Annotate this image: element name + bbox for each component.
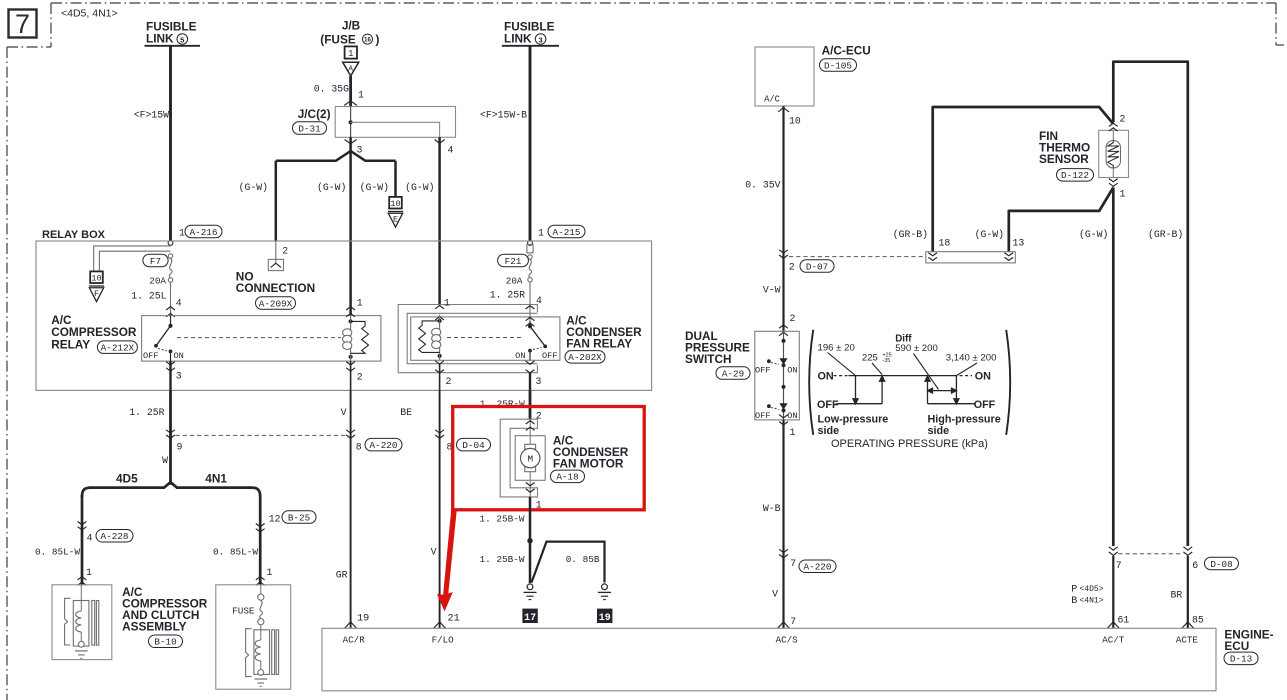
svg-text:2: 2 bbox=[357, 372, 363, 383]
wire GR-B loop over top bbox=[1113, 62, 1188, 546]
junction dot bbox=[527, 538, 532, 543]
dual pressure switch box A-29 bbox=[755, 331, 800, 420]
svg-text:(G-W): (G-W) bbox=[360, 182, 389, 193]
wire to ECU AC/T bbox=[1112, 556, 1114, 628]
svg-text:): ) bbox=[376, 32, 380, 46]
svg-text:side: side bbox=[818, 425, 840, 437]
fin thermo sensor box D-122 bbox=[1099, 130, 1129, 177]
svg-text:FAN MOTOR: FAN MOTOR bbox=[553, 457, 624, 471]
chart left parenthesis bbox=[809, 330, 813, 435]
wire G-W to A/C-ECU 13 bbox=[1009, 188, 1114, 252]
svg-text:19: 19 bbox=[357, 613, 369, 624]
svg-text:ECU: ECU bbox=[1224, 639, 1249, 653]
relay box outline bbox=[36, 241, 652, 390]
connector chevrons D-07 bbox=[779, 250, 788, 253]
ECU pin chevron AC/T bbox=[1107, 622, 1119, 629]
svg-text:0. 35V: 0. 35V bbox=[745, 179, 780, 190]
svg-text:9: 9 bbox=[177, 441, 183, 452]
ECU pin chevron AC/R bbox=[345, 622, 357, 629]
no connection stub bbox=[275, 241, 277, 263]
connector chevrons pin 8 D-04 bbox=[435, 430, 444, 433]
wire 4D5/4N1 split bracket bbox=[82, 482, 260, 497]
wire 4D5 branch bbox=[81, 495, 84, 585]
compressor clutch internals (4N1) bbox=[246, 629, 252, 677]
svg-text:4N1: 4N1 bbox=[205, 472, 227, 486]
A/C compressor relay box A-212X outline bbox=[142, 316, 381, 362]
svg-text:A-209X: A-209X bbox=[259, 298, 293, 309]
svg-text:A-212X: A-212X bbox=[101, 343, 135, 354]
svg-text:10: 10 bbox=[789, 116, 801, 127]
svg-text:OFF: OFF bbox=[974, 399, 996, 411]
A/C compressor and clutch assembly box bbox=[52, 585, 112, 660]
svg-text:D-07: D-07 bbox=[806, 261, 828, 272]
svg-text:0. 35G: 0. 35G bbox=[314, 83, 349, 94]
svg-text:3: 3 bbox=[538, 35, 542, 44]
chart ON right bbox=[960, 375, 973, 377]
svg-text:4: 4 bbox=[176, 298, 182, 309]
svg-text:SENSOR: SENSOR bbox=[1039, 152, 1089, 166]
pin 2 chevrons motor bbox=[526, 421, 535, 424]
relay coil (compressor) bbox=[349, 319, 353, 323]
chart callout 3140 bbox=[956, 363, 977, 376]
ECU pin chevron AC/S bbox=[778, 622, 790, 629]
fuse F7 bbox=[168, 254, 172, 258]
svg-text:<4N1>: <4N1> bbox=[1080, 597, 1104, 606]
ECU pin chevron ACTE bbox=[1182, 622, 1194, 629]
svg-text:1: 1 bbox=[348, 49, 353, 59]
svg-text:7: 7 bbox=[790, 558, 796, 569]
pin 1 chevrons sensor bbox=[1109, 179, 1118, 182]
svg-text:2: 2 bbox=[790, 313, 796, 324]
compressor clutch internals (4D5) bbox=[65, 598, 71, 645]
A/C-ECU connector capsule D-07 side bbox=[926, 252, 1016, 263]
svg-text:OFF: OFF bbox=[817, 399, 839, 411]
chart main line bbox=[848, 375, 957, 377]
svg-text:D-08: D-08 bbox=[1210, 559, 1232, 570]
svg-text:(G-W): (G-W) bbox=[405, 182, 434, 193]
pin 1 chevrons motor bbox=[526, 483, 535, 486]
wire G-W pin4 branch to fan relay coil bbox=[438, 137, 441, 304]
svg-text:1: 1 bbox=[1120, 189, 1126, 200]
svg-text:10: 10 bbox=[91, 274, 101, 284]
svg-text:7: 7 bbox=[15, 9, 30, 39]
svg-text:(GR-B): (GR-B) bbox=[893, 229, 928, 240]
svg-text:LINK: LINK bbox=[504, 31, 532, 45]
svg-text:ON: ON bbox=[787, 365, 797, 375]
J/B connector 1 box bbox=[345, 46, 357, 58]
svg-text:V: V bbox=[431, 546, 437, 557]
svg-text:3: 3 bbox=[536, 376, 542, 387]
A/C condenser fan relay mid box bbox=[407, 313, 537, 363]
svg-text:0. 85L-W: 0. 85L-W bbox=[213, 546, 258, 557]
svg-text:ON: ON bbox=[787, 411, 797, 421]
connector chevrons D-08 left bbox=[1109, 547, 1118, 550]
svg-text:20A: 20A bbox=[506, 275, 523, 286]
svg-text:1: 1 bbox=[86, 567, 92, 578]
wire 0.85B branch bbox=[532, 542, 605, 583]
fuse F21 label bbox=[498, 254, 529, 267]
svg-text:CONNECTION: CONNECTION bbox=[236, 281, 315, 295]
pin 3 chevrons switch bbox=[166, 362, 175, 365]
fan motor M circle bbox=[521, 448, 540, 467]
connector chevrons D-08 right bbox=[1183, 547, 1192, 550]
svg-text:BR: BR bbox=[1171, 589, 1183, 600]
svg-text:F7: F7 bbox=[150, 256, 161, 267]
pin 3 chevrons fan switch bbox=[526, 361, 535, 364]
svg-text:4: 4 bbox=[448, 145, 454, 156]
svg-text:590 ± 200: 590 ± 200 bbox=[895, 343, 938, 354]
wire V-GR to ECU AC/R bbox=[350, 390, 352, 628]
svg-text:V-W: V-W bbox=[763, 284, 781, 295]
svg-text:F: F bbox=[94, 289, 99, 299]
chart callout diff bbox=[914, 354, 939, 390]
svg-text:18: 18 bbox=[939, 237, 951, 248]
connector A-220 dashed link bbox=[176, 434, 347, 436]
svg-text:A-202X: A-202X bbox=[568, 352, 602, 363]
svg-text:ACTE: ACTE bbox=[1176, 634, 1199, 645]
svg-text:V: V bbox=[772, 589, 778, 600]
chart callout 225 bbox=[872, 363, 882, 375]
svg-text:(G-W): (G-W) bbox=[239, 182, 268, 193]
svg-text:1. 25B-W: 1. 25B-W bbox=[479, 554, 524, 565]
svg-text:225: 225 bbox=[862, 352, 878, 363]
svg-text:19: 19 bbox=[599, 613, 611, 624]
highlight red arrow bbox=[437, 510, 457, 612]
wire fusible link 5 to relay box bbox=[169, 46, 172, 241]
svg-text:1: 1 bbox=[267, 567, 273, 578]
svg-text:A/C: A/C bbox=[764, 95, 780, 105]
wire BE-V to ECU F/LO bbox=[439, 390, 441, 628]
svg-text:D-31: D-31 bbox=[298, 123, 321, 134]
svg-text:2: 2 bbox=[789, 261, 795, 272]
connector chevrons A-228 bbox=[78, 522, 87, 525]
wire 1.25R-W to fan motor bbox=[529, 390, 532, 419]
A/C condenser fan relay outer shield box bbox=[398, 305, 537, 373]
svg-text:196 ± 20: 196 ± 20 bbox=[818, 343, 855, 354]
svg-text:OFF: OFF bbox=[143, 351, 158, 361]
svg-text:1: 1 bbox=[179, 228, 185, 239]
svg-text:1: 1 bbox=[358, 90, 364, 101]
ground 17 bbox=[527, 584, 533, 590]
pin 2 chevrons fan coil bbox=[435, 361, 444, 364]
svg-text:(GR-B): (GR-B) bbox=[1148, 229, 1183, 240]
svg-text:BE: BE bbox=[400, 407, 412, 418]
relay switch (fan) bbox=[529, 321, 531, 326]
chart low-pressure hysteresis bbox=[855, 376, 857, 400]
wire fan motor to ground junction bbox=[529, 497, 532, 583]
svg-text:1. 25B-W: 1. 25B-W bbox=[479, 513, 524, 524]
svg-text:0. 85L-W: 0. 85L-W bbox=[35, 546, 80, 557]
fuse F7 feed loop bbox=[94, 246, 171, 272]
svg-text:2: 2 bbox=[282, 246, 288, 257]
highlight red box bbox=[453, 407, 645, 510]
ECU pin chevron F/LO bbox=[434, 622, 446, 629]
svg-text:20A: 20A bbox=[149, 275, 166, 286]
ground 17 tag bbox=[522, 609, 537, 623]
svg-text:A/C-ECU: A/C-ECU bbox=[822, 44, 871, 58]
relay switch (compressor) bbox=[170, 316, 172, 326]
svg-text:<4D5>: <4D5> bbox=[1080, 585, 1104, 594]
svg-text:3: 3 bbox=[357, 145, 363, 156]
svg-text:E: E bbox=[393, 214, 398, 224]
fan motor box bbox=[515, 436, 545, 481]
svg-text:V: V bbox=[341, 407, 347, 418]
svg-text:(FUSE: (FUSE bbox=[320, 32, 356, 46]
svg-text:2: 2 bbox=[446, 376, 452, 387]
svg-text:A-18: A-18 bbox=[556, 472, 578, 483]
pin 2 chevrons sensor bbox=[1109, 123, 1118, 126]
fuse F7 label bbox=[143, 254, 168, 267]
svg-text:ON: ON bbox=[975, 370, 991, 382]
svg-text:21: 21 bbox=[448, 613, 460, 624]
fuse F21 bbox=[528, 255, 532, 259]
wire G-W to ground E bbox=[394, 161, 397, 197]
relay armature dashed link (compressor) bbox=[177, 337, 341, 339]
chart callout 196 bbox=[828, 353, 856, 376]
ground E connector 10 bbox=[389, 197, 402, 209]
svg-text:7: 7 bbox=[1116, 560, 1122, 571]
svg-text:2: 2 bbox=[1120, 113, 1126, 124]
pressure switch internal wire bbox=[783, 331, 785, 420]
fin thermo sensor element bbox=[1112, 130, 1114, 140]
svg-text:AC/S: AC/S bbox=[776, 634, 799, 645]
svg-text:OPERATING PRESSURE (kPa): OPERATING PRESSURE (kPa) bbox=[831, 438, 988, 450]
terminal circle A-216 bbox=[168, 241, 173, 246]
wire G-W branch peak bbox=[276, 137, 396, 161]
pin 4 chevrons bbox=[166, 307, 175, 310]
svg-text:A: A bbox=[348, 65, 353, 73]
svg-text:1: 1 bbox=[538, 228, 544, 239]
svg-text:A-228: A-228 bbox=[101, 531, 129, 542]
svg-text:1: 1 bbox=[790, 427, 796, 438]
engine ECU box bbox=[322, 628, 1216, 691]
wire G-W to NO CONNECTION bbox=[275, 161, 278, 241]
pressure switch lower contact bbox=[780, 404, 786, 409]
wire G-W center to compressor relay coil bbox=[349, 151, 352, 316]
svg-text:A-216: A-216 bbox=[190, 227, 218, 238]
svg-text:0. 85B: 0. 85B bbox=[566, 554, 600, 565]
connector chevrons A-220 (right) bbox=[779, 549, 788, 552]
wire pressure switch to ECU AC/S bbox=[782, 420, 784, 628]
fan motor brush terminals bbox=[525, 444, 536, 449]
pin 2 chevrons pressure switch bbox=[779, 325, 788, 328]
J/B connector A triangle bbox=[343, 62, 359, 76]
A/C condenser fan relay box A-202X outline bbox=[411, 317, 560, 360]
connector chevrons pin 8 A-220 bbox=[346, 430, 355, 433]
A/C compressor fuse box (4N1) bbox=[216, 585, 291, 689]
svg-text:A-220: A-220 bbox=[370, 440, 398, 451]
svg-text:17: 17 bbox=[524, 613, 536, 624]
svg-text:<F>15W-B: <F>15W-B bbox=[480, 110, 527, 121]
fuse F21 holder bbox=[527, 245, 533, 253]
pin 18 chevrons bbox=[928, 253, 937, 256]
fuse inside 4N1 box bbox=[260, 585, 262, 594]
page frame dash-dot border bbox=[51, 2, 1276, 4]
svg-text:J/C(2): J/C(2) bbox=[298, 107, 331, 121]
connector chevrons B-25 bbox=[256, 524, 265, 527]
wire fan coil pin2 to relay box edge bbox=[439, 364, 441, 391]
svg-text:16: 16 bbox=[364, 37, 371, 44]
svg-text:A-29: A-29 bbox=[722, 368, 744, 379]
svg-text:(G-W): (G-W) bbox=[1079, 229, 1108, 240]
svg-text:3: 3 bbox=[176, 371, 182, 382]
D-07 dashed link bbox=[789, 256, 926, 258]
wire J/B to J/C(2) bbox=[349, 76, 352, 107]
svg-text:61: 61 bbox=[1118, 615, 1130, 626]
wire A/C-ECU to pressure switch bbox=[782, 106, 784, 331]
J/C(2) internal bus bbox=[350, 107, 352, 138]
pin 1 chevrons pressure switch bbox=[779, 415, 788, 418]
svg-text:FAN RELAY: FAN RELAY bbox=[566, 337, 632, 351]
svg-text:Low-pressure: Low-pressure bbox=[818, 414, 889, 426]
svg-text:OFF: OFF bbox=[542, 351, 557, 361]
svg-text:4: 4 bbox=[536, 295, 542, 306]
svg-text:GR: GR bbox=[336, 569, 348, 580]
connector chevrons pin 9 bbox=[166, 430, 175, 433]
wire G-W down to ECU AC/T bbox=[1112, 188, 1115, 547]
svg-text:1: 1 bbox=[536, 499, 542, 510]
pin 4 chevron bbox=[435, 140, 445, 144]
fan motor outer bracket bbox=[500, 419, 537, 497]
svg-text:(G-W): (G-W) bbox=[317, 182, 346, 193]
svg-text:D-105: D-105 bbox=[824, 60, 852, 71]
svg-text:8: 8 bbox=[356, 441, 362, 452]
relay coil (fan) bbox=[438, 319, 442, 323]
svg-text:1: 1 bbox=[357, 298, 363, 309]
svg-text:A-220: A-220 bbox=[804, 562, 832, 573]
ground 19 tag bbox=[597, 609, 612, 623]
svg-text:P: P bbox=[1071, 585, 1077, 596]
svg-text:High-pressure: High-pressure bbox=[928, 414, 1001, 426]
svg-text:ON: ON bbox=[818, 370, 834, 382]
svg-text:SWITCH: SWITCH bbox=[685, 352, 732, 366]
svg-text:<4D5, 4N1>: <4D5, 4N1> bbox=[61, 8, 118, 20]
svg-text:1. 25L: 1. 25L bbox=[131, 291, 166, 302]
pressure switch upper contact bbox=[782, 339, 786, 343]
svg-text:7: 7 bbox=[790, 616, 796, 627]
A/C-ECU box bbox=[755, 47, 814, 106]
wire 1.25R compressor feed bbox=[169, 390, 172, 483]
svg-text:6: 6 bbox=[1192, 560, 1198, 571]
svg-text:ON: ON bbox=[174, 351, 184, 361]
svg-text:ASSEMBLY: ASSEMBLY bbox=[122, 619, 187, 633]
svg-text:4: 4 bbox=[87, 532, 93, 543]
svg-text:A-215: A-215 bbox=[553, 227, 581, 238]
pin 3 chevron bbox=[345, 140, 357, 144]
pin 1 chevrons fuse box bbox=[256, 577, 265, 580]
fan motor wire internal bbox=[529, 419, 531, 444]
wire GR-B to A/C-ECU 18 bbox=[933, 107, 1114, 252]
svg-text:D-122: D-122 bbox=[1061, 170, 1089, 181]
pin 13 chevrons bbox=[1004, 253, 1013, 256]
svg-text:1: 1 bbox=[444, 298, 450, 309]
svg-text:D-04: D-04 bbox=[462, 440, 485, 451]
wire fan switch pin3 to relay box edge bbox=[529, 373, 531, 391]
pin 4 chevrons fan switch bbox=[526, 306, 535, 309]
junction connector J/C(2) box bbox=[335, 107, 455, 138]
wire compressor switch pin3 to relay box edge bbox=[169, 361, 171, 390]
chart right parenthesis bbox=[1006, 330, 1010, 435]
svg-text:D-13: D-13 bbox=[1230, 654, 1252, 665]
svg-text:10: 10 bbox=[390, 199, 400, 209]
ground 19 bbox=[602, 584, 608, 590]
terminal circle A-215 bbox=[528, 241, 533, 246]
pin 10 chevron bbox=[778, 108, 789, 112]
svg-text:(G-W): (G-W) bbox=[975, 229, 1004, 240]
svg-text:1. 25R: 1. 25R bbox=[490, 290, 525, 301]
pin 1 chevrons fan coil bbox=[435, 305, 444, 308]
svg-text:OFF: OFF bbox=[755, 411, 770, 421]
chart high-pressure hysteresis bbox=[927, 381, 929, 404]
svg-text:13: 13 bbox=[1013, 237, 1025, 248]
svg-text:W: W bbox=[162, 455, 168, 466]
svg-text:FUSE: FUSE bbox=[232, 606, 255, 617]
D-08 dashed link bbox=[1118, 553, 1183, 555]
svg-text:12: 12 bbox=[269, 514, 281, 525]
svg-text:F21: F21 bbox=[505, 256, 522, 267]
wire to ECU ACTE bbox=[1187, 556, 1189, 628]
svg-text:AC/R: AC/R bbox=[343, 634, 366, 645]
wire fusible link 3 to relay box bbox=[529, 46, 532, 241]
svg-text:side: side bbox=[928, 425, 950, 437]
wire 4N1 branch bbox=[259, 495, 262, 585]
svg-text:OFF: OFF bbox=[755, 365, 770, 375]
svg-text:B-10: B-10 bbox=[154, 637, 176, 648]
wire compressor coil pin2 to relay box edge bbox=[350, 361, 352, 390]
svg-text:B: B bbox=[1071, 596, 1077, 607]
svg-text:1. 25R: 1. 25R bbox=[129, 407, 164, 418]
svg-text:RELAY: RELAY bbox=[51, 337, 90, 351]
pin 1 chevron into J/C(2) bbox=[344, 101, 357, 106]
svg-text:M: M bbox=[527, 454, 533, 465]
svg-text:LINK: LINK bbox=[146, 31, 174, 45]
svg-text:3,140 ± 200: 3,140 ± 200 bbox=[946, 352, 997, 363]
pin 1 chevrons compressor assembly bbox=[78, 577, 87, 580]
svg-text:-35: -35 bbox=[883, 358, 891, 364]
svg-text:<F>15W: <F>15W bbox=[134, 110, 169, 121]
chart diff double arrow bbox=[932, 390, 953, 392]
relay armature dashed link (fan) bbox=[447, 337, 524, 339]
svg-text:4D5: 4D5 bbox=[116, 472, 138, 486]
svg-text:RELAY BOX: RELAY BOX bbox=[42, 229, 106, 241]
svg-text:85: 85 bbox=[1192, 615, 1204, 626]
svg-text:B-25: B-25 bbox=[288, 512, 310, 523]
svg-text:F/LO: F/LO bbox=[432, 634, 455, 645]
ground F connector 10 bbox=[90, 271, 103, 283]
svg-text:2: 2 bbox=[536, 411, 542, 422]
pin 2 chevrons coil bbox=[346, 362, 355, 365]
svg-text:ON: ON bbox=[515, 351, 525, 361]
svg-text:AC/T: AC/T bbox=[1102, 634, 1125, 645]
sheet number 7 box bbox=[9, 10, 37, 38]
pressure switch mid dot bbox=[782, 385, 786, 389]
svg-text:W-B: W-B bbox=[763, 503, 781, 514]
pin 1 chevrons coil bbox=[346, 307, 355, 310]
svg-text:J/B: J/B bbox=[342, 18, 360, 32]
